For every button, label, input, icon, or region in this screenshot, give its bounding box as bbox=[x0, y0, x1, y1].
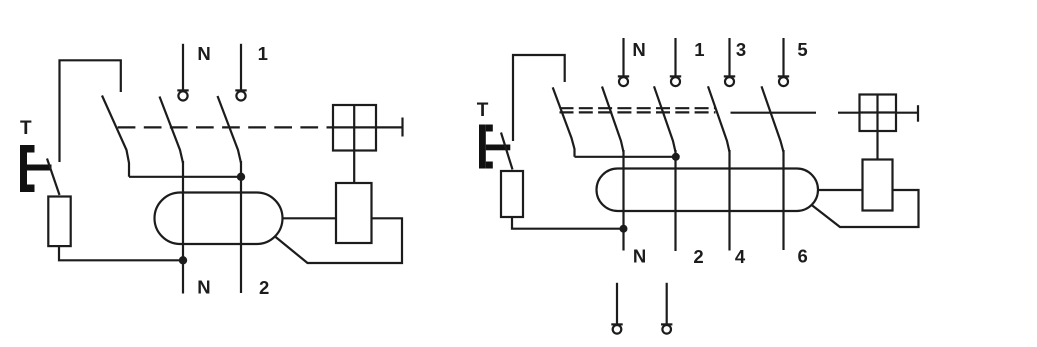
return wire bbox=[275, 218, 402, 263]
aux terminal stub 2 bbox=[666, 283, 668, 325]
conductor N bbox=[182, 161, 184, 294]
fixed contact N tick bbox=[177, 89, 188, 91]
trip linkage bracket bbox=[60, 60, 121, 162]
fixed contact 3 bbox=[724, 75, 735, 77]
wire test branch to conductor 2 bbox=[575, 156, 676, 158]
svg-text:T: T bbox=[20, 118, 32, 139]
conductor 4 bbox=[728, 150, 730, 251]
svg-text:1: 1 bbox=[694, 39, 704, 60]
trip coil bbox=[336, 183, 372, 243]
svg-text:3: 3 bbox=[736, 39, 746, 60]
svg-text:5: 5 bbox=[797, 39, 807, 60]
svg-text:1: 1 bbox=[258, 43, 268, 64]
resistor R bbox=[48, 197, 70, 247]
manual actuator stem bbox=[376, 126, 403, 128]
aux terminal tick 1 bbox=[611, 323, 622, 325]
junction dot on phase bbox=[237, 173, 245, 181]
svg-text:T: T bbox=[477, 100, 489, 121]
wire test branch to phase bbox=[129, 176, 241, 178]
switch blade phase bbox=[218, 96, 242, 163]
wire resistor to N node bbox=[512, 217, 624, 229]
link box to coil bbox=[876, 131, 878, 160]
pole N supply line bbox=[182, 44, 184, 91]
dashed linkage line bbox=[118, 126, 334, 128]
conductor phase bbox=[240, 161, 242, 293]
conductor 2 bbox=[674, 150, 676, 251]
pole 1 supply line bbox=[240, 44, 242, 91]
pole N supply line bbox=[622, 38, 624, 76]
junction dot on N bbox=[620, 225, 628, 233]
svg-text:2: 2 bbox=[259, 277, 269, 298]
linkage solid segment 1 bbox=[731, 112, 817, 114]
fixed contact 5 bbox=[778, 75, 789, 77]
pole 3 supply line bbox=[728, 38, 730, 76]
fixed contact N bbox=[618, 75, 629, 77]
test contact blade bbox=[47, 159, 60, 196]
pole 5 supply line bbox=[782, 38, 784, 76]
pole 1 supply line bbox=[674, 38, 676, 76]
conductor 6 bbox=[782, 150, 784, 250]
manual actuator stem bbox=[896, 112, 917, 114]
test contact blade bbox=[501, 133, 513, 170]
wire toroid to coil bbox=[818, 189, 863, 191]
switch blade N bbox=[602, 87, 624, 153]
conductor N bbox=[622, 150, 624, 251]
test button actuator bbox=[20, 145, 52, 192]
svg-text:6: 6 bbox=[798, 246, 808, 267]
test branch blade bbox=[553, 87, 575, 156]
svg-text:2: 2 bbox=[693, 246, 703, 267]
test button actuator bbox=[479, 125, 510, 169]
junction dot on conductor 2 bbox=[672, 153, 680, 161]
fixed contact N bbox=[178, 91, 187, 100]
aux terminal circle 1 bbox=[613, 325, 622, 334]
linkage solid segment 2 bbox=[838, 112, 860, 114]
actuator end bar bbox=[917, 105, 919, 122]
return wire bbox=[811, 190, 919, 227]
svg-text:N: N bbox=[633, 246, 646, 267]
mechanism box bbox=[333, 105, 376, 151]
toroid core bbox=[597, 169, 819, 212]
trip coil bbox=[863, 160, 893, 211]
svg-text:4: 4 bbox=[735, 246, 746, 267]
switch blade 2 bbox=[654, 86, 676, 152]
wire resistor to N node bbox=[59, 246, 183, 260]
svg-text:N: N bbox=[632, 39, 645, 60]
svg-text:N: N bbox=[197, 277, 210, 298]
fixed contact 1 bbox=[236, 91, 245, 100]
junction dot on N bbox=[179, 256, 187, 264]
mechanism box bbox=[860, 95, 897, 132]
fixed contact 1 tick bbox=[235, 89, 246, 91]
switch blade 6 bbox=[762, 86, 784, 152]
actuator end bar bbox=[401, 118, 403, 137]
fixed contact 1 bbox=[670, 75, 681, 77]
aux terminal tick 2 bbox=[661, 323, 672, 325]
aux terminal circle 2 bbox=[662, 325, 671, 334]
resistor R bbox=[501, 171, 523, 217]
wire toroid to coil bbox=[283, 217, 337, 219]
aux terminal stub 1 bbox=[616, 283, 618, 325]
switch blade 4 bbox=[708, 86, 730, 152]
switch blade N bbox=[160, 97, 184, 164]
double dashed linkage line lower bbox=[560, 111, 716, 113]
test branch blade bbox=[102, 96, 129, 177]
link box to coil bbox=[353, 151, 355, 184]
toroid core bbox=[155, 193, 283, 245]
trip linkage bracket bbox=[513, 55, 565, 141]
double dashed linkage line upper bbox=[560, 107, 716, 109]
svg-text:N: N bbox=[197, 43, 210, 64]
